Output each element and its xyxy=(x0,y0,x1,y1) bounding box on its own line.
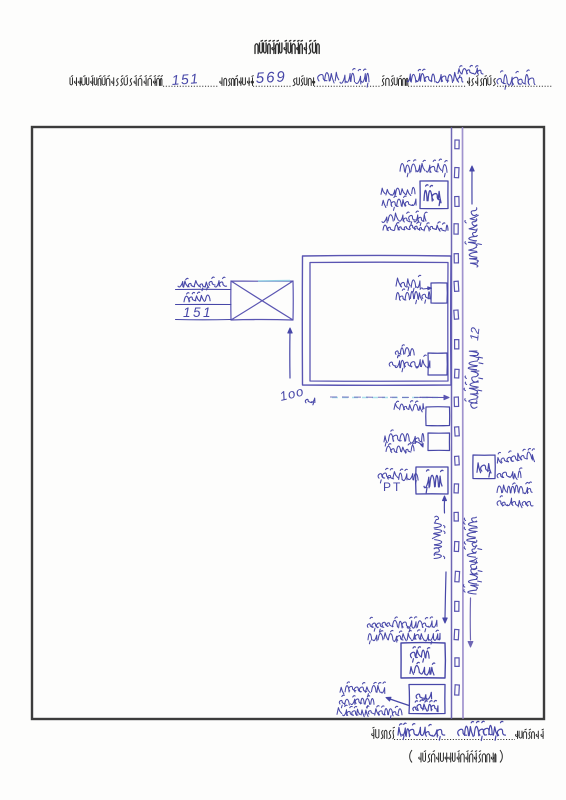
road left edge line xyxy=(450,128,453,718)
handwritten บ้านด่านลานหอย xyxy=(383,222,448,231)
svg-text:12: 12 xyxy=(467,326,482,341)
box: tyre shop xyxy=(426,407,450,426)
handwritten สหกรณ์ xyxy=(382,196,416,210)
handwritten ปั๊มน้ำมัน above xyxy=(400,159,447,177)
handwritten บางจาก xyxy=(381,187,415,195)
handwritten อำ inside xyxy=(410,647,429,662)
handwritten เภอ inside xyxy=(410,662,435,675)
handwritten บ้านด่านลานหอย (district) xyxy=(368,630,440,644)
printed title: แผนที่สังเขป xyxy=(255,41,319,54)
dashed 100m line cyan tint xyxy=(332,397,440,399)
cyan smear on parcel top xyxy=(258,280,290,283)
arrow down to Sukhothai xyxy=(469,598,471,640)
handwritten ปั๊ม inside PT box xyxy=(424,470,443,493)
handwritten บ้านด่านลานหอย (school) xyxy=(337,705,402,718)
svg-text:569: 569 xyxy=(255,68,287,87)
handwritten การเกษตร xyxy=(382,211,427,226)
dotted leader after จังหวัด xyxy=(497,85,552,87)
map border frame xyxy=(32,127,544,719)
parcel box with X xyxy=(231,281,293,320)
vertical label ไป ก.ท.ม xyxy=(432,516,445,558)
printed label: ตำบล xyxy=(293,76,315,86)
arrow from school box to name xyxy=(390,699,409,706)
handwritten โฉนดที่ดิน xyxy=(178,277,227,291)
vertical label ไป อ.เมือง สุโขทัย xyxy=(463,517,482,594)
box: leasing xyxy=(428,433,450,451)
curved arrow to leasing box xyxy=(414,441,422,446)
printed label: การไปโฉนดที่ดินเลขที่ xyxy=(70,76,163,86)
box: PT pump xyxy=(416,467,448,494)
ruled line 1 (under โฉนดที่ดิน) xyxy=(176,288,232,290)
vertical label ไป จ.ตาก xyxy=(465,208,482,267)
handwritten โรงเรียน xyxy=(340,682,385,697)
block outer rectangle xyxy=(302,255,451,385)
handwritten ปตท. xyxy=(497,468,522,480)
handwritten ปั๊ม inside Bangchak box xyxy=(424,185,441,206)
dotted leader after ตำบล xyxy=(314,85,381,87)
handwritten อนุบาล xyxy=(339,695,374,708)
ruled line 3 (under 151) xyxy=(176,319,232,321)
road centre dashed lane markings xyxy=(455,140,459,149)
handwritten subdistrict ลานหอย xyxy=(318,69,369,88)
svg-text:PT: PT xyxy=(383,480,402,494)
box: district office xyxy=(401,643,445,678)
box: restaurant xyxy=(428,353,447,375)
handwritten signature ศุภากร xyxy=(398,723,445,740)
dashed 100m arrow line xyxy=(330,396,444,399)
handwritten ปั๊มน้ำมัน (PT) xyxy=(378,468,418,483)
handwritten เลขที่ xyxy=(184,292,210,302)
handwritten ร้านยาง xyxy=(394,401,424,412)
box: Thai Panich xyxy=(431,283,447,303)
handwritten ลิสซิ่ง xyxy=(386,443,415,453)
arrow up into PT box xyxy=(443,501,445,513)
vertical road name ทางหลวงสาย xyxy=(464,351,483,408)
handwritten ร้าน xyxy=(395,345,414,358)
handwritten ม. unit xyxy=(305,398,315,405)
handwritten หอย above line xyxy=(458,65,483,77)
road right edge line xyxy=(462,128,465,718)
handwritten โกลี่ซอม xyxy=(384,430,424,446)
arrow up to parcel xyxy=(289,331,291,378)
printed label: อำเภอ xyxy=(382,76,408,86)
printed label: เลขที่ดิน xyxy=(220,76,254,86)
handwritten district บ้านด่านลาน xyxy=(407,69,463,83)
box: PTT pump xyxy=(473,455,495,479)
handwritten เรียน inside xyxy=(413,700,438,712)
handwritten พาณิช xyxy=(396,288,432,304)
printed ลงชื่อ xyxy=(372,727,395,738)
printed ( นายศุภากร ทุ่มพวง ) xyxy=(410,750,412,763)
dotted leader after เลขที่ดิน xyxy=(253,85,291,87)
svg-text:151: 151 xyxy=(171,70,200,88)
arrow up to Tak xyxy=(471,169,473,204)
box: Bangchak pump xyxy=(420,181,448,209)
handwritten ที่ว่าการอำเภอ xyxy=(367,617,437,632)
box: school xyxy=(409,685,445,714)
svg-text:151: 151 xyxy=(183,305,213,320)
handwritten ปั๊มน้ำมัน (PTT) xyxy=(496,448,536,466)
handwritten ลานหอย xyxy=(497,496,533,508)
arrow down (left of road) xyxy=(445,572,446,618)
handwritten province สุโขทัย xyxy=(497,70,535,89)
printed ผู้จัดทำ xyxy=(516,729,544,738)
dotted leader after เลขที่ xyxy=(163,85,218,87)
dotted leader after อำเภอ xyxy=(408,85,466,87)
handwritten บ้านด่าน xyxy=(497,482,532,494)
handwritten ครัวอนัน xyxy=(389,355,430,372)
ruled line 2 (under เลขที่) xyxy=(176,303,232,305)
handwritten โรง inside xyxy=(416,692,431,701)
handwritten signature ทุ่มพวง xyxy=(458,721,506,740)
small arrow to Thai Panich box xyxy=(423,288,431,289)
block inner rectangle xyxy=(310,262,448,381)
handwritten ไทย xyxy=(396,275,421,292)
dotted signature line xyxy=(394,739,515,741)
handwritten ปั๊ม inside PTT box xyxy=(477,463,491,477)
printed label: จังหวัด xyxy=(468,76,496,86)
